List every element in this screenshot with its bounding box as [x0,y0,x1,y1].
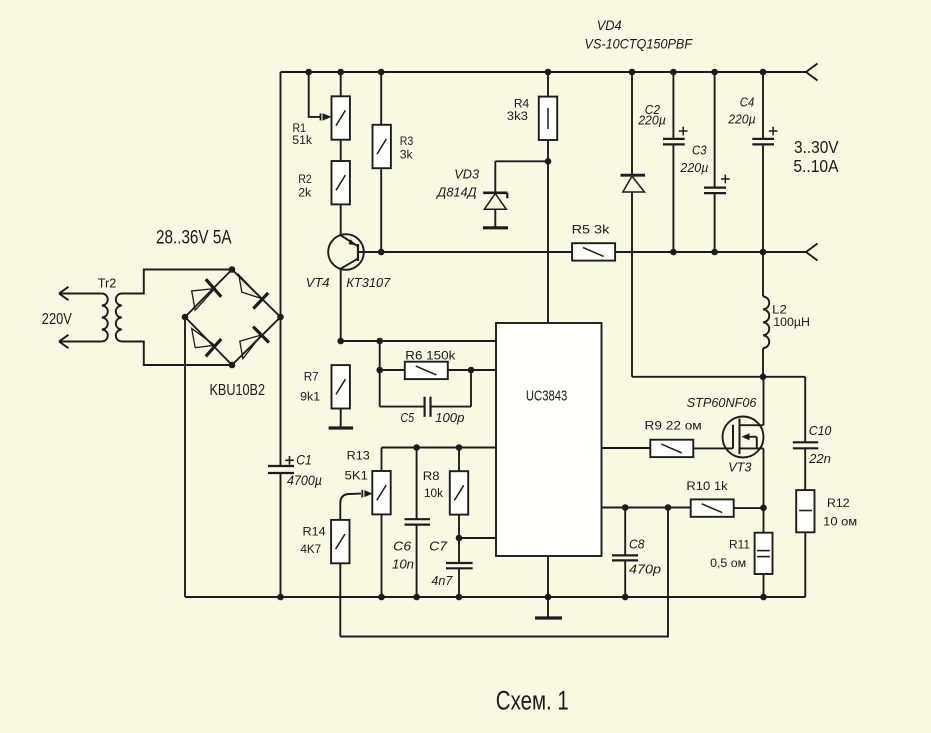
node R6 tap [376,338,383,345]
svg-text:R10 1k: R10 1k [686,479,728,493]
svg-text:R7: R7 [304,369,319,383]
node R8-C7 [456,535,463,542]
resistor R2 2k [332,161,350,204]
node bridge right [277,314,284,321]
wire secondary bottom lead [122,342,232,366]
wire primary bottom lead [59,341,102,343]
svg-text:220µ: 220µ [727,112,755,127]
wire second rail [381,251,572,253]
node R8 top [456,444,463,451]
svg-text:100µH: 100µH [773,315,810,329]
node C2 top [670,69,677,76]
wire R4 top lead [547,72,549,97]
node R4-VD3 [545,158,552,165]
svg-text:C7: C7 [429,539,448,554]
resistor R12 10om [796,490,814,532]
node VT4 base [378,249,385,256]
wire R3 top lead [380,72,382,125]
svg-text:5..10A: 5..10A [793,156,838,176]
svg-text:470p: 470p [629,562,661,577]
arrow R1 wiper [320,113,322,120]
svg-text:C4: C4 [740,95,755,110]
wire R10 right [734,507,764,509]
wire R1-R2 [340,140,342,162]
svg-text:VD3: VD3 [454,167,480,182]
node bridge top [229,266,236,273]
svg-text:28..36V 5A: 28..36V 5A [156,228,232,249]
wire top rail [281,71,807,73]
svg-text:3k: 3k [400,148,414,162]
wire secondary top lead [122,270,232,294]
op-amp U1 UC3843 box [496,323,602,556]
wire R8 bottom [458,514,460,538]
node C4 top [760,69,767,76]
svg-text:КТ3107: КТ3107 [346,275,391,290]
wire ground rail [185,596,805,598]
svg-text:VD4: VD4 [597,17,622,33]
capacitor C10 22n [804,377,806,443]
plus sign C2 [679,130,688,132]
output terminal - [806,244,818,253]
node bridge left [182,314,189,321]
capacitor C5 100p [380,406,425,408]
wire Vcc to UC3843 [547,161,549,323]
svg-text:R12: R12 [827,496,850,510]
zener diode VD3 D814D [483,192,507,195]
wire main left vertical [280,72,282,466]
resistor R11 0.5om [763,508,765,533]
capacitor C3 220u [714,72,716,188]
node R1 tap on rail [305,69,312,76]
node bridge bottom [229,362,236,369]
wire feedback bottom line [340,508,668,637]
wire VT3 source [763,448,765,507]
svg-text:Tr2: Tr2 [98,275,117,290]
node R7 top [337,338,344,345]
wire VT4 collector [340,269,342,341]
node C8 ground [622,594,629,601]
node R13 ground [378,594,385,601]
svg-text:2k: 2k [298,185,312,199]
svg-text:R3: R3 [400,134,414,148]
diode VD4 VS-10CTQ150PBF [621,174,646,177]
ground VD3 [483,226,508,229]
wire bridge diamond [185,270,232,318]
svg-text:R8: R8 [423,469,440,483]
svg-text:UC3843: UC3843 [526,389,567,405]
terminal arrow 220V bottom [59,335,69,342]
transformer T r2 primary winding [102,294,108,342]
svg-text:220µ: 220µ [637,113,666,128]
svg-text:KBU10B2: KBU10B2 [210,382,266,399]
node C7 ground [456,594,463,601]
terminal arrow 220V top [59,287,69,294]
resistor R9 22om [650,440,693,457]
capacitor C6 10n [416,448,418,520]
svg-text:STP60NF06: STP60NF06 [687,395,758,410]
resistor R13 5K1 [372,471,390,514]
wire R3-base node [380,168,382,252]
wire R13 top lead [381,448,383,472]
node C3 top [711,69,718,76]
svg-text:R6 150k: R6 150k [405,349,456,363]
wire R2-VT4 emitter [340,204,342,235]
diode bridge KBU10B2 D-topright [239,275,262,299]
node C2 bottom [670,249,677,256]
capacitor C4 220u [762,72,764,139]
wire VT3 drain [763,377,765,425]
ground R7 [329,426,354,429]
node C4 bottom [760,249,767,256]
svg-text:VT4: VT4 [306,275,330,290]
svg-text:C3: C3 [692,143,707,158]
node R11 ground [760,594,767,601]
svg-text:C8: C8 [629,537,645,552]
svg-text:3k3: 3k3 [507,109,528,123]
node R10-VT3 source [760,505,767,512]
capacitor C1 4700u [268,465,294,467]
wire UC3843 gnd pin [547,556,549,597]
resistor R5 3k [572,243,615,260]
svg-text:R2: R2 [298,172,312,186]
node L2-switch [760,374,767,381]
wire R9 to gate [693,447,733,449]
wire R1 wiper tap [309,72,320,117]
node R6 left lead [376,367,383,374]
svg-text:220V: 220V [42,311,72,328]
wire primary top lead [59,293,102,295]
wire Vref rail [341,340,496,342]
svg-text:C6: C6 [393,539,412,554]
svg-text:10 ом: 10 ом [823,515,857,529]
node feedback join [665,504,672,511]
svg-text:VT3: VT3 [728,460,752,475]
node C6 ground [413,594,420,601]
node C8 top [622,504,629,511]
wire R13 bottom [381,514,383,597]
svg-text:4n7: 4n7 [431,573,453,588]
svg-text:5K1: 5K1 [345,468,368,482]
plus sign C3 [721,178,730,180]
svg-text:Д814Д: Д814Д [435,184,476,199]
svg-text:51k: 51k [292,133,312,147]
resistor R14 4K7 [331,520,349,563]
plus sign C4 [769,130,778,132]
svg-text:220µ: 220µ [679,160,708,175]
node C3 bottom [711,249,718,256]
svg-text:C5: C5 [401,410,415,425]
svg-text:10n: 10n [392,557,414,572]
svg-text:R11: R11 [729,538,750,552]
svg-text:Схем. 1: Схем. 1 [496,686,569,716]
svg-text:4700µ: 4700µ [287,473,322,488]
wire bridge minus vertical [184,317,186,597]
node C6 top [413,444,420,451]
wire VD4 top lead [631,72,633,175]
wire FB rail [382,447,497,449]
svg-text:R13: R13 [347,449,370,463]
node R3 top [378,69,385,76]
node UC3843 gnd [545,594,552,601]
resistor R4 3k3 [539,97,557,140]
wire R4 bottom [547,140,549,162]
node R1 top [337,69,344,76]
svg-text:R9 22 ом: R9 22 ом [645,419,702,433]
node R6 right lead [468,367,475,374]
resistor R7 9k1 [332,365,350,408]
diode bridge KBU10B2 D-bottomright [240,335,261,359]
wire pin to R8-C7 node [459,537,496,539]
capacitor C2 220u [672,72,674,139]
svg-text:4K7: 4K7 [301,542,322,556]
svg-text:9k1: 9k1 [300,390,320,404]
plus sign C1 [285,459,294,461]
transistor VT4 KT3107 [328,234,364,270]
output terminal + [806,64,818,73]
wire R1 top lead [340,72,342,96]
svg-text:R5 3k: R5 3k [572,223,611,237]
diode bridge KBU10B2 D-topleft [192,289,215,311]
wire R6 right [447,369,471,371]
svg-text:C10: C10 [809,423,832,438]
wire switch node line [632,376,805,378]
wire UC out to R9 [602,447,651,449]
resistor R8 10k [450,471,468,514]
wire R7 bottom [340,409,342,427]
wire VD3 branch [495,160,548,162]
node VD4 top [629,69,636,76]
resistor R6 150k [405,362,448,379]
capacitor C8 470p [624,508,626,556]
svg-text:10k: 10k [424,486,444,500]
resistor R1 51k [332,96,350,139]
resistor R10 1k [691,499,734,516]
svg-text:3..30V: 3..30V [794,137,839,157]
svg-text:22n: 22n [808,451,831,466]
transistor VT3 STP60NF06 [723,417,764,458]
wire UC isense pin [602,507,691,509]
arrow R13 wiper [340,494,361,521]
svg-text:0,5 ом: 0,5 ом [710,556,746,570]
ground UC3843 [547,597,549,617]
value mark R4 1W [547,108,549,129]
wire R14 bottom [339,563,341,637]
transformer Tr2 secondary winding [116,294,122,342]
svg-text:R14: R14 [303,525,326,539]
resistor R3 3k [373,125,391,168]
capacitor C7 4n7 [458,538,460,563]
svg-text:100p: 100p [435,410,464,425]
node R4 top [545,69,552,76]
wire R8 top lead [458,448,460,472]
inductor L2 100uH [762,252,764,296]
node C1 ground [277,594,284,601]
diode bridge KBU10B2 D-bottomleft [192,329,215,348]
svg-text:C1: C1 [296,452,312,467]
wire R6 left [379,341,381,407]
svg-text:VS-10CTQ150PBF: VS-10CTQ150PBF [585,36,694,52]
